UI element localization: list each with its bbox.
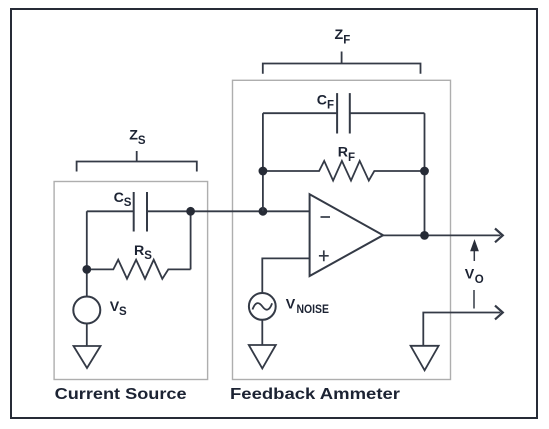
op-amp U1 bbox=[310, 194, 384, 276]
node: inverting input junction bbox=[259, 207, 268, 216]
wire: main signal line to op-amp inverting input bbox=[147, 210, 310, 212]
svg-text:S: S bbox=[144, 250, 152, 262]
svg-text:Current Source: Current Source bbox=[55, 386, 187, 403]
wire: lower output reference line bbox=[423, 313, 500, 346]
svg-text:C: C bbox=[317, 92, 327, 108]
source Vnoise bbox=[249, 293, 276, 320]
resistor Rf bbox=[263, 161, 425, 181]
svg-text:Z: Z bbox=[129, 127, 138, 143]
ground (output reference) bbox=[411, 346, 439, 371]
node: Rf left junction bbox=[259, 167, 268, 176]
svg-text:Feedback Ammeter: Feedback Ammeter bbox=[230, 386, 400, 403]
svg-text:NOISE: NOISE bbox=[297, 302, 330, 316]
wire: Vo lower pointer dash bbox=[473, 290, 475, 309]
svg-text:S: S bbox=[119, 306, 127, 318]
node: output junction bbox=[420, 231, 429, 240]
node: Rs left junction bbox=[82, 265, 91, 274]
wire: main signal line (Cs left lead) bbox=[87, 210, 134, 212]
svg-text:Z: Z bbox=[335, 27, 344, 43]
wire: op-amp output bbox=[383, 234, 500, 236]
op-amp minus symbol bbox=[321, 216, 331, 218]
ground (Vs) bbox=[74, 346, 101, 368]
wire: Cf top left lead bbox=[263, 112, 337, 114]
node: Rf right junction bbox=[420, 167, 429, 176]
arrowhead: lower reference bbox=[495, 306, 503, 320]
svg-text:R: R bbox=[338, 145, 348, 161]
wire: Rs right vertical to main line bbox=[190, 211, 192, 269]
svg-text:S: S bbox=[124, 197, 132, 209]
source Vs bbox=[73, 297, 100, 324]
wire: feedback left vertical bbox=[262, 113, 264, 211]
arrowhead: output bbox=[495, 229, 503, 243]
ground (Vnoise) bbox=[249, 345, 276, 369]
svg-text:C: C bbox=[114, 190, 124, 206]
svg-text:O: O bbox=[475, 274, 484, 286]
capacitor Cf bbox=[336, 93, 338, 133]
svg-text:R: R bbox=[134, 243, 144, 259]
svg-text:V: V bbox=[286, 296, 296, 312]
svg-text:S: S bbox=[138, 135, 146, 147]
Feedback Ammeter enclosure bbox=[233, 80, 451, 379]
wire: current source left vertical bbox=[86, 211, 88, 296]
wire: Cf top right lead bbox=[350, 112, 425, 114]
resistor Rs bbox=[87, 260, 191, 279]
capacitor Cs bbox=[133, 192, 135, 232]
svg-text:V: V bbox=[465, 266, 475, 282]
bracket Zf bbox=[263, 52, 421, 74]
node: Cs/Rs right junction bbox=[186, 207, 195, 216]
svg-text:F: F bbox=[343, 34, 350, 46]
arrow up (Vo upper pointer) bbox=[473, 249, 475, 261]
svg-text:F: F bbox=[327, 100, 334, 112]
wire: Vs to ground bbox=[86, 324, 88, 347]
op-amp plus symbol bbox=[319, 250, 329, 261]
Current Source enclosure bbox=[54, 182, 208, 380]
bracket Zs bbox=[77, 151, 197, 172]
wire: Vnoise to ground bbox=[261, 320, 263, 345]
svg-text:F: F bbox=[348, 152, 355, 164]
wire: feedback right vertical bbox=[424, 113, 426, 235]
wire: non-inverting input lead bbox=[262, 258, 309, 293]
